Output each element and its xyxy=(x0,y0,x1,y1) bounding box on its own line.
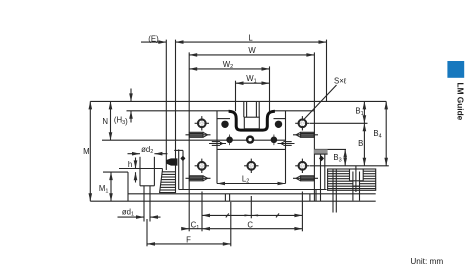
grease port left xyxy=(226,137,233,144)
leader line Sxl xyxy=(304,85,337,120)
mounting hole top-left xyxy=(195,116,209,130)
side grease screw right xyxy=(278,143,295,145)
hole pitch chain dimension line xyxy=(202,214,302,216)
extension line hole row bottom right xyxy=(310,165,389,167)
svg-text:ød1: ød1 xyxy=(122,207,134,217)
svg-text:B3: B3 xyxy=(333,153,341,163)
extension line L right xyxy=(326,40,328,102)
svg-text:W: W xyxy=(248,46,256,55)
extension line N bottom xyxy=(102,139,286,141)
rail band joint lines xyxy=(224,194,226,201)
rail left end face xyxy=(127,172,129,201)
dimension L line with (E) chain xyxy=(141,41,166,43)
extension line E right / L left xyxy=(175,40,177,172)
svg-text:Unit: mm: Unit: mm xyxy=(410,257,443,266)
end plate screw left xyxy=(221,121,228,128)
datum diamond left xyxy=(180,156,185,162)
rail through hole d1 walls xyxy=(143,186,145,222)
svg-text:C1: C1 xyxy=(191,221,200,231)
svg-text:ød2: ød2 xyxy=(141,145,153,155)
svg-text:L: L xyxy=(248,33,253,42)
dimension C1 xyxy=(183,228,189,230)
oblique ticks xyxy=(226,213,229,217)
svg-text:LM Guide: LM Guide xyxy=(456,83,466,121)
dimension d1 xyxy=(118,216,145,218)
gray shear band right xyxy=(314,149,328,154)
dimension W1 xyxy=(236,82,270,84)
extension line W1/W2 right xyxy=(269,66,271,111)
dimension H3 arrows xyxy=(130,89,132,102)
dimension L2 xyxy=(217,183,286,185)
dimension M xyxy=(89,101,91,201)
end plate screw right xyxy=(275,121,282,128)
grease nipple side view left xyxy=(166,158,177,165)
side tapped hole upper-left xyxy=(186,132,211,137)
svg-text:M: M xyxy=(83,147,90,156)
dimension d2 xyxy=(128,153,141,155)
core top band lines xyxy=(217,118,230,120)
grease fitting center xyxy=(246,135,254,143)
grease nipple body xyxy=(244,117,259,129)
block core edge right xyxy=(285,111,287,184)
svg-text:L2: L2 xyxy=(242,174,249,184)
mounting hole bottom-left xyxy=(195,159,209,173)
datum diamond right xyxy=(319,156,324,162)
LM block outline xyxy=(188,52,190,201)
side tapped hole upper-right xyxy=(293,132,318,137)
extension line W right xyxy=(313,52,315,110)
extension line W1 left xyxy=(235,81,237,112)
dimension B4 xyxy=(385,101,387,165)
blue index square xyxy=(447,61,464,78)
mounting hole bottom-right xyxy=(295,159,309,173)
dimension M1 xyxy=(110,172,112,201)
table reference surface line xyxy=(90,100,386,102)
svg-text:B1: B1 xyxy=(355,107,363,117)
svg-text:M1: M1 xyxy=(99,184,109,194)
dimension C xyxy=(202,228,302,230)
extension line block top left xyxy=(127,110,190,112)
grease port right xyxy=(271,137,278,144)
dimension W2 xyxy=(189,68,269,70)
grease nipple top stem xyxy=(243,101,245,117)
dimension B xyxy=(363,123,365,166)
section line through block xyxy=(174,149,183,151)
bellows flange plate left xyxy=(178,149,180,189)
block bottom edge lines xyxy=(179,189,327,191)
extension line E left xyxy=(165,40,167,170)
bellows right extended xyxy=(328,169,376,190)
dimension B3 xyxy=(344,149,346,165)
rail top surface line xyxy=(119,168,163,170)
mounting hole bottom-center xyxy=(244,159,258,173)
side grease screw left xyxy=(209,143,226,145)
center meeting arrows xyxy=(245,214,252,216)
dimension W xyxy=(189,54,314,56)
svg-text:B4: B4 xyxy=(373,129,381,139)
dimension N xyxy=(110,101,112,140)
svg-text:W2: W2 xyxy=(223,60,233,70)
dimension F xyxy=(147,243,231,245)
side tapped hole lower-right xyxy=(293,176,318,181)
bellows flange plate right xyxy=(320,154,322,201)
svg-text:N: N xyxy=(102,117,108,126)
svg-text:W1: W1 xyxy=(246,74,256,84)
dimension B1 xyxy=(363,101,365,123)
svg-text:h: h xyxy=(128,160,132,169)
counterbore bottom xyxy=(140,185,154,187)
extension lines bottom dims xyxy=(188,201,190,231)
end plate recess thick contour xyxy=(229,111,275,130)
rail lower chamfer line xyxy=(128,193,376,195)
svg-text:(H3): (H3) xyxy=(114,116,128,126)
svg-text:B: B xyxy=(358,139,363,148)
rail bottom line xyxy=(90,200,375,202)
svg-text:F: F xyxy=(186,236,191,245)
bellows notch xyxy=(333,166,363,213)
side tapped hole lower-left xyxy=(186,176,211,181)
bellows left compressed xyxy=(160,172,176,193)
svg-text:C: C xyxy=(247,221,253,230)
rail counterbore hole d2 walls xyxy=(139,157,141,186)
dimension h arrows xyxy=(135,158,137,169)
extension line M1 top xyxy=(103,171,128,173)
mounting hole top-right xyxy=(295,116,309,130)
svg-text:S×ℓ: S×ℓ xyxy=(334,76,347,85)
block core edge left xyxy=(216,111,218,184)
svg-text:(E): (E) xyxy=(148,34,159,43)
extension line hole row top right xyxy=(310,122,368,124)
